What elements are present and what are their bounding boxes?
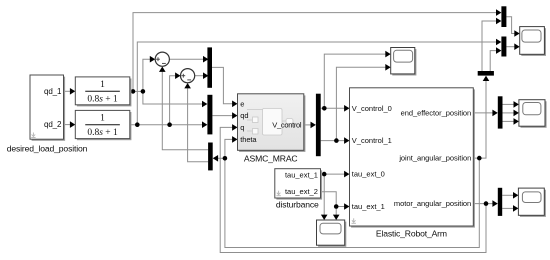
svg-text:q: q [240, 123, 244, 132]
svg-text:tau_ext_1: tau_ext_1 [352, 202, 385, 211]
svg-text:V_control_1: V_control_1 [352, 136, 392, 145]
svg-text:motor_angular_position: motor_angular_position [394, 199, 471, 208]
svg-text:tau_ext_1: tau_ext_1 [285, 171, 318, 180]
svg-text:end_effector_position: end_effector_position [401, 109, 472, 118]
svg-text:1: 1 [100, 80, 105, 90]
svg-text:joint_angular_position: joint_angular_position [398, 154, 471, 163]
svg-text:V_control_0: V_control_0 [352, 104, 392, 113]
svg-text:0.8s + 1: 0.8s + 1 [87, 94, 118, 104]
svg-text:qd: qd [240, 111, 248, 120]
svg-text:qd_1: qd_1 [44, 87, 62, 96]
svg-text:tau_ext_0: tau_ext_0 [352, 170, 385, 179]
svg-text:e: e [240, 99, 244, 108]
svg-text:qd_2: qd_2 [44, 120, 62, 129]
svg-text:tau_ext_2: tau_ext_2 [285, 187, 318, 196]
svg-text:0.8s + 1: 0.8s + 1 [87, 128, 118, 138]
svg-text:theta: theta [240, 135, 257, 144]
svg-text:disturbance: disturbance [276, 200, 319, 210]
svg-text:Elastic_Robot_Arm: Elastic_Robot_Arm [376, 228, 447, 238]
svg-text:ASMC_MRAC: ASMC_MRAC [244, 154, 298, 164]
svg-text:1: 1 [100, 113, 105, 123]
svg-text:V_control: V_control [272, 121, 302, 130]
svg-text:desired_load_position: desired_load_position [7, 143, 88, 153]
